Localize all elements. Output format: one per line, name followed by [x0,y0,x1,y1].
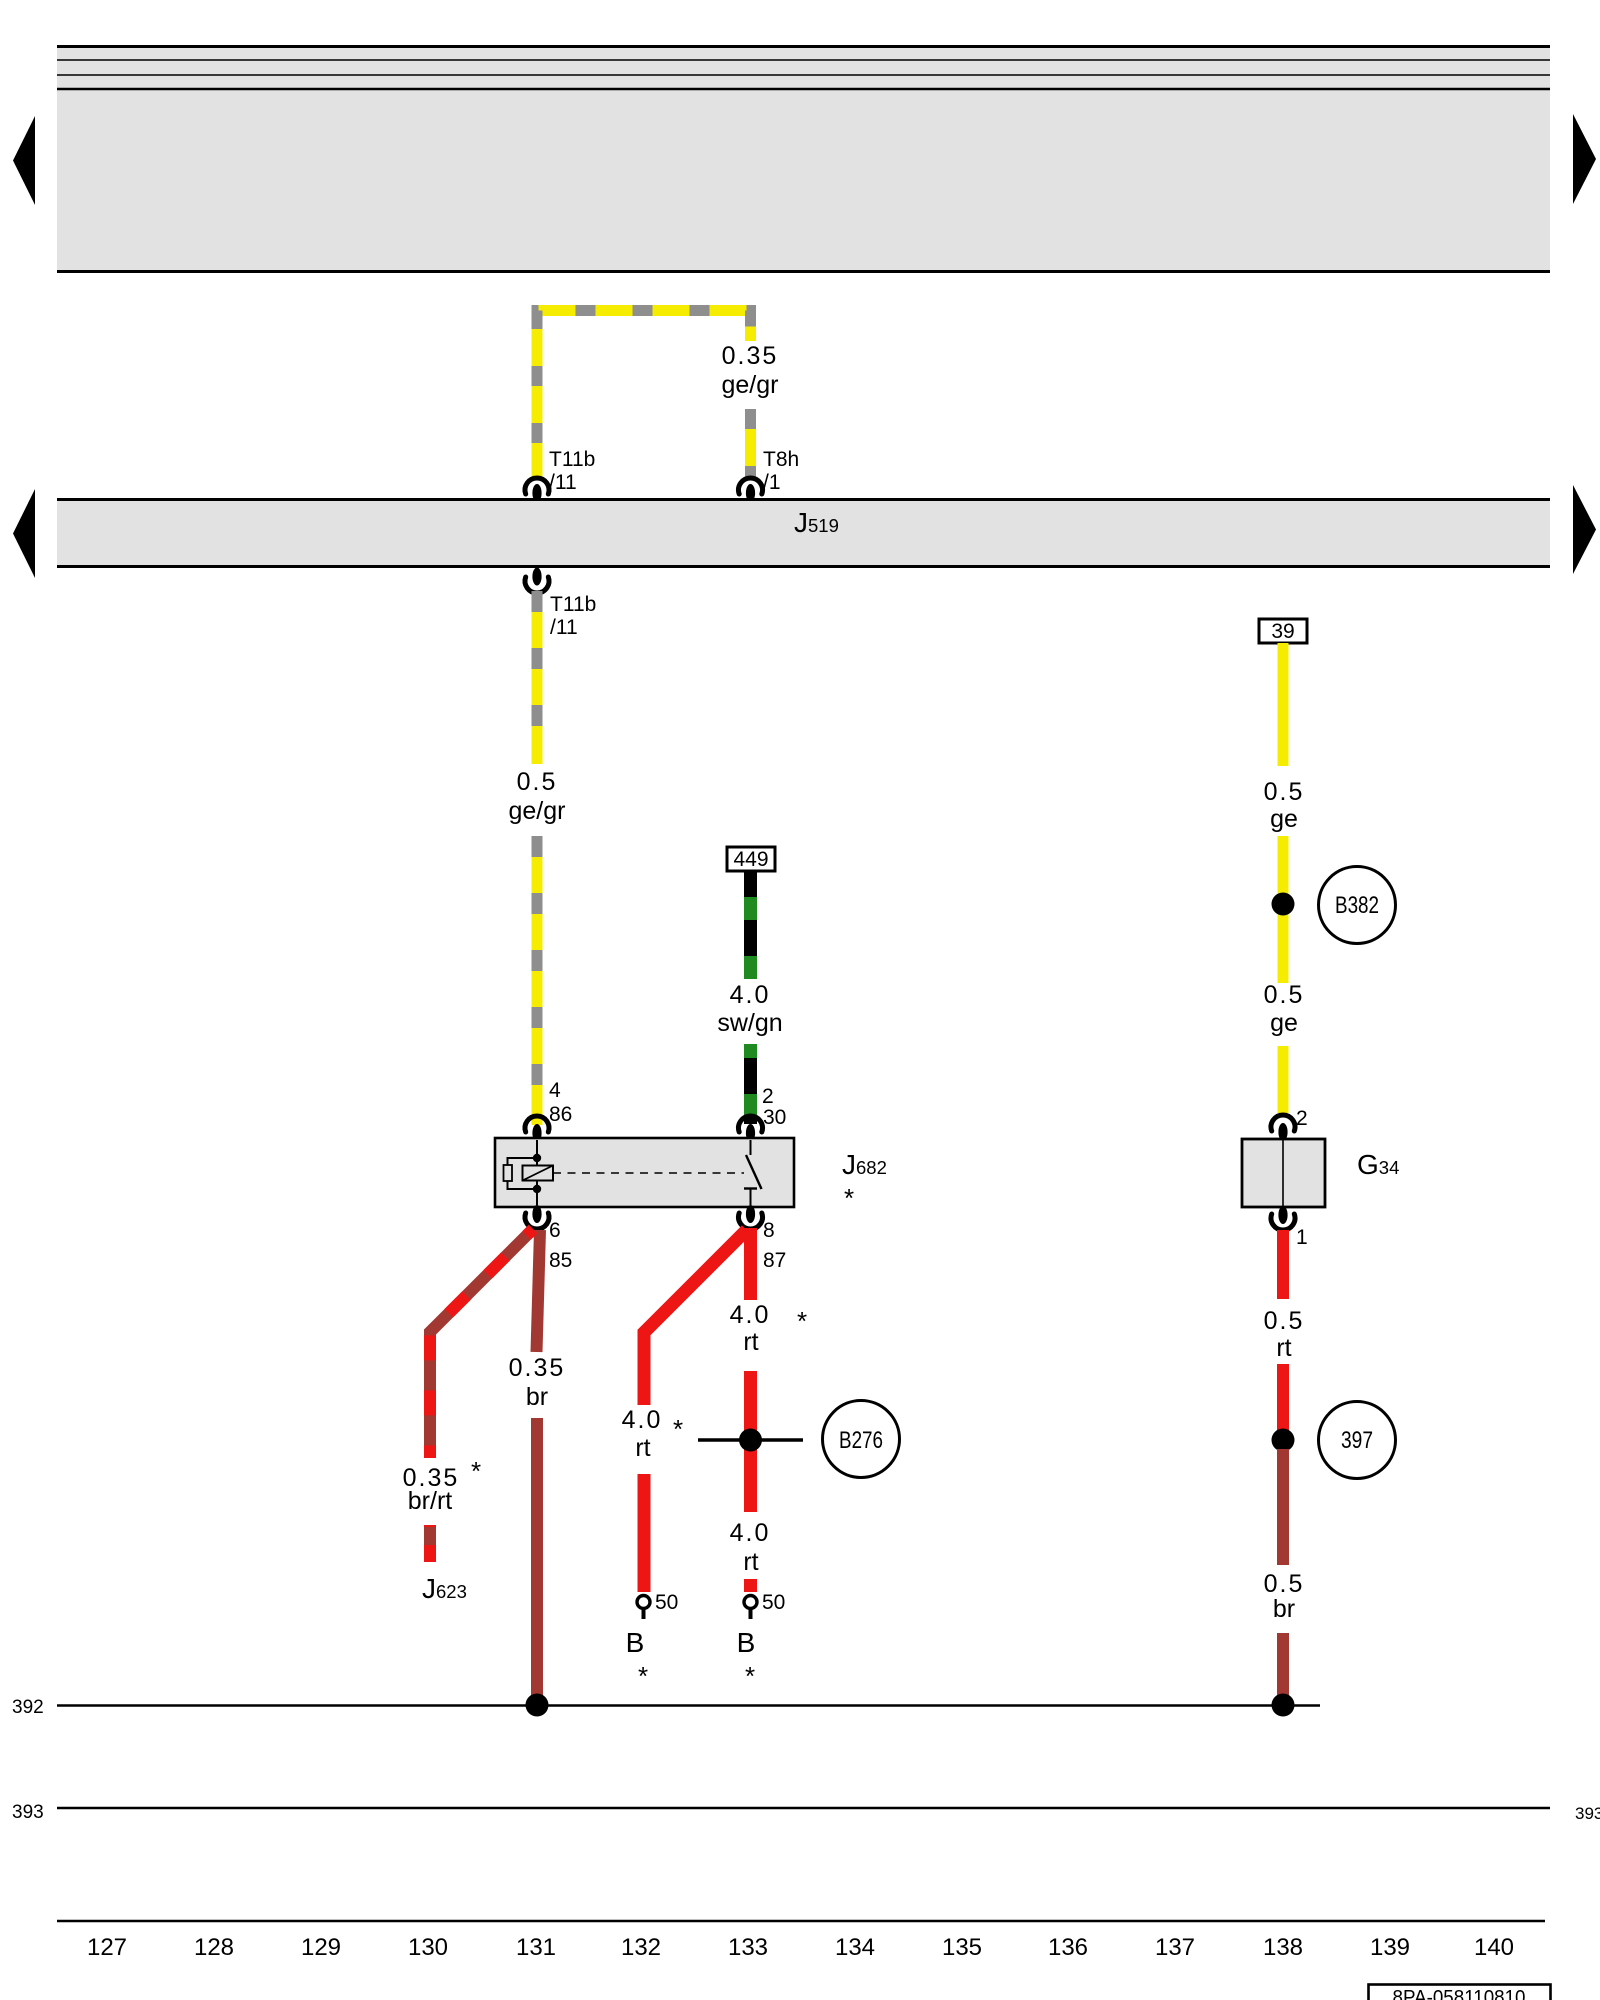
svg-text:ge: ge [1270,805,1298,833]
pin connector 85 (J682 bottom, pin 6) [532,1205,541,1223]
svg-text:85: 85 [549,1249,572,1272]
svg-text:136: 136 [1048,1934,1088,1961]
svg-text:*: * [745,1661,755,1691]
svg-text:39: 39 [1271,620,1294,643]
pin connector 87 (J682 bottom, pin 8) [746,1205,755,1223]
svg-text:rt: rt [743,1328,758,1356]
svg-text:132: 132 [621,1934,661,1961]
svg-text:87: 87 [763,1249,786,1272]
svg-text:134: 134 [835,1934,875,1961]
svg-text:0.5: 0.5 [1264,981,1305,1009]
terminal 50 (left) [637,1596,650,1609]
terminal 50 (right) [744,1596,757,1609]
diagram number box 8PA-058110810 [1369,1985,1551,2000]
svg-text:135: 135 [942,1934,982,1961]
svg-text:393: 393 [1575,1804,1600,1823]
svg-text:*: * [638,1661,648,1691]
node (coil top) [533,1154,541,1162]
wire 0.5 br to ground 392 (right) [1277,1449,1289,1700]
svg-text:ge: ge [1270,1009,1298,1037]
actuation dashed line [553,1172,744,1174]
terminal designation box 39 [1259,619,1307,643]
svg-text:50: 50 [655,1591,678,1614]
pin connector 1 (G34 bottom) [1278,1206,1287,1224]
svg-text:ge/gr: ge/gr [722,371,779,399]
ground rail 392 [57,1704,1320,1707]
wire 0.5 ge/gr from J519 to J682 pin 86 [532,591,543,1125]
svg-text:B: B [626,1627,645,1658]
svg-text:0.5: 0.5 [1264,1307,1305,1335]
svg-text:2: 2 [762,1085,774,1108]
right continuation arrow (J519) [1573,485,1596,574]
pin connector 86 (J682 top) [525,1116,549,1132]
current track numbers 127-140 [87,1934,1514,1961]
wire 0.5 rt from G34 pin 1 [1277,1230,1289,1431]
svg-text:T11b: T11b [550,593,596,616]
ground rail 393 [57,1807,1550,1809]
svg-text:*: * [471,1456,481,1486]
wire 0.35 br/rt from pin 6 to J623 [430,1229,533,1562]
svg-text:*: * [797,1306,807,1336]
svg-text:2: 2 [1296,1107,1308,1130]
junction node at 397 [1272,1429,1295,1452]
svg-text:30: 30 [763,1106,786,1129]
svg-text:sw/gn: sw/gn [717,1009,782,1037]
svg-text:4.0: 4.0 [730,1301,771,1329]
svg-text:*: * [673,1414,683,1444]
svg-text:rt: rt [635,1434,650,1462]
current track scale line [57,1920,1545,1922]
relay J682 box [495,1138,794,1207]
svg-text:392: 392 [12,1697,44,1718]
wire 4.0 rt diagonal from pin 8 to terminal 50 (left) [644,1230,747,1592]
svg-text:127: 127 [87,1934,127,1961]
svg-text:8: 8 [763,1219,775,1242]
svg-text:1: 1 [1296,1226,1308,1249]
resistor R [504,1165,513,1181]
svg-text:129: 129 [301,1934,341,1961]
node (coil bottom) [533,1185,541,1193]
svg-text:6: 6 [549,1219,561,1242]
svg-text:B382: B382 [1335,892,1379,919]
svg-text:T8h: T8h [763,448,799,471]
wire 0.5 ge from 39 to G34 pin 2 [1278,643,1289,1113]
wire 0.35 ge/gr loop from T11b/11 to T8h/1 [537,311,751,481]
svg-text:br: br [526,1383,548,1411]
svg-text:0.35: 0.35 [509,1354,566,1382]
svg-text:/11: /11 [550,616,578,639]
relay coil lead from pin 86 [536,1140,538,1166]
left continuation arrow (J519) [13,489,35,578]
svg-text:86: 86 [549,1103,572,1126]
svg-text:rt: rt [743,1548,758,1576]
svg-text:rt: rt [1276,1334,1291,1362]
ground node (right) [1272,1694,1295,1717]
junction node with B276 [698,1438,803,1441]
svg-text:0.35: 0.35 [722,342,779,370]
wire 4.0 sw/gn from 449 to J682 pin 30 [744,871,757,1124]
pin connector 2 (G34 top) [1271,1115,1295,1131]
svg-text:138: 138 [1263,1934,1303,1961]
svg-text:0.5: 0.5 [1264,1570,1305,1598]
svg-text:449: 449 [733,848,768,871]
svg-text:50: 50 [762,1591,785,1614]
relay coil [523,1166,554,1181]
connector T8h/1 (top of J519) [738,448,799,502]
control unit band J519 [57,500,1550,567]
svg-text:131: 131 [516,1934,556,1961]
svg-text:133: 133 [728,1934,768,1961]
svg-text:8PA-058110810: 8PA-058110810 [1393,1987,1526,2000]
svg-text:4.0: 4.0 [730,1519,771,1547]
left continuation arrow (top band) [13,116,35,205]
svg-text:/1: /1 [763,471,781,494]
coil lead to pin 85 [536,1181,538,1206]
svg-text:ge/gr: ge/gr [509,797,566,825]
connection designation circle B276 [823,1401,900,1478]
pin connector 30 (J682 top) [739,1116,763,1132]
wire 4.0 rt from pin 8 straight down [744,1228,757,1592]
svg-text:0.5: 0.5 [1264,778,1305,806]
svg-text:137: 137 [1155,1934,1195,1961]
switch contact from pin 30 [750,1140,752,1155]
svg-text:397: 397 [1341,1427,1373,1454]
svg-text:*: * [844,1183,854,1213]
right continuation arrow (top band) [1573,114,1596,204]
connection designation circle B382 [1319,867,1396,944]
svg-text:130: 130 [408,1934,448,1961]
svg-text:128: 128 [194,1934,234,1961]
svg-text:139: 139 [1370,1934,1410,1961]
terminal designation box 449 [727,847,775,871]
svg-text:4.0: 4.0 [622,1406,663,1434]
svg-text:4: 4 [549,1079,561,1102]
svg-text:B276: B276 [839,1427,883,1454]
connector T11b/11 (top of J519) [525,448,595,502]
svg-text:br: br [1273,1595,1295,1623]
svg-text:140: 140 [1474,1934,1514,1961]
connector T11b/11 (bottom of J519) [525,568,596,640]
svg-text:br/rt: br/rt [408,1487,453,1515]
connection designation circle 397 [1319,1402,1396,1479]
wire 0.35 br from pin 6 to ground 392 [537,1230,541,1700]
svg-text:4.0: 4.0 [730,981,771,1009]
svg-text:B: B [737,1627,756,1658]
svg-text:393: 393 [12,1802,44,1823]
svg-text:/11: /11 [549,471,577,494]
component top bus bar (current track header band) [57,45,1550,273]
ground node (left) [526,1694,549,1717]
svg-text:0.5: 0.5 [517,768,558,796]
parallel resistor branch [508,1158,538,1189]
svg-text:T11b: T11b [549,448,595,471]
junction node at B382 [1272,893,1295,916]
sensor G34 box [1242,1139,1325,1207]
